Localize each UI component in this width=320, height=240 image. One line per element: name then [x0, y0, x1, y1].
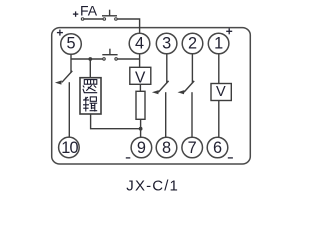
- wire bus from terminal 5 to pushbutton: [71, 58, 103, 60]
- pushbutton FA: [81, 10, 117, 21]
- wire logic box to return junction: [91, 114, 141, 129]
- wire V element to resistor: [139, 84, 141, 91]
- resistor R: [136, 91, 145, 119]
- svg-text:2: 2: [188, 34, 197, 52]
- terminal 10: [59, 137, 80, 158]
- svg-text:3: 3: [162, 34, 171, 52]
- svg-text:6: 6: [213, 139, 222, 157]
- svg-text:7: 7: [188, 139, 197, 157]
- wire terminal 5 to bus: [70, 55, 72, 60]
- svg-text:8: 8: [162, 139, 171, 157]
- svg-text:V: V: [216, 84, 226, 100]
- terminal 5: [61, 34, 82, 55]
- polarity + at terminal 5: [57, 30, 63, 36]
- label + (positive supply at FA): [73, 11, 78, 16]
- svg-text:V: V: [135, 69, 146, 86]
- terminal 6: [207, 137, 228, 158]
- polarity - at terminal 9: [126, 157, 131, 159]
- terminal 1: [208, 33, 229, 54]
- polarity - at terminal 6: [228, 157, 233, 159]
- svg-text:5: 5: [66, 34, 75, 52]
- pushbutton on bus: [102, 49, 117, 60]
- wire V element 2 to terminal 6: [218, 101, 220, 138]
- voltage element V (terminals 1-6): [211, 84, 231, 101]
- terminal 7: [182, 137, 203, 158]
- glyph ji: [85, 97, 87, 112]
- logic unit label (CJK strokes): [83, 80, 97, 112]
- terminal 8: [156, 137, 177, 158]
- wire FA to terminal 4: [117, 19, 139, 33]
- contact K2 (terminals 3-8): [152, 54, 169, 137]
- wire terminal 1 to V element 2: [218, 54, 220, 84]
- junction logic-box tap: [88, 57, 92, 61]
- contact K1 (terminals 5-10): [55, 59, 72, 137]
- terminal 2: [182, 33, 203, 54]
- wire resistor to terminal 9: [140, 119, 142, 137]
- wire pushbutton to terminal-4 column: [117, 58, 139, 60]
- svg-text:9: 9: [137, 139, 146, 157]
- svg-text:JX-C/1: JX-C/1: [126, 177, 179, 194]
- svg-text:4: 4: [135, 34, 144, 52]
- terminal 9: [131, 137, 152, 158]
- relay case outline: [52, 28, 251, 164]
- wire junction to logic box: [89, 59, 91, 78]
- svg-text:1: 1: [214, 34, 223, 52]
- wire terminal 4 to V element: [139, 55, 141, 68]
- terminal 4: [129, 33, 150, 54]
- svg-text:FA: FA: [80, 2, 98, 18]
- contact K3 (terminals 2-7): [178, 54, 195, 137]
- polarity + at terminal 1: [226, 28, 232, 34]
- logic unit box: [80, 78, 101, 114]
- wire FA left lead: [84, 18, 103, 20]
- junction resistor/logic return: [139, 127, 143, 131]
- glyph luo: [84, 80, 97, 85]
- voltage element V (terminal 4 branch): [130, 67, 151, 86]
- terminal 3: [156, 33, 177, 54]
- svg-text:10: 10: [61, 139, 78, 157]
